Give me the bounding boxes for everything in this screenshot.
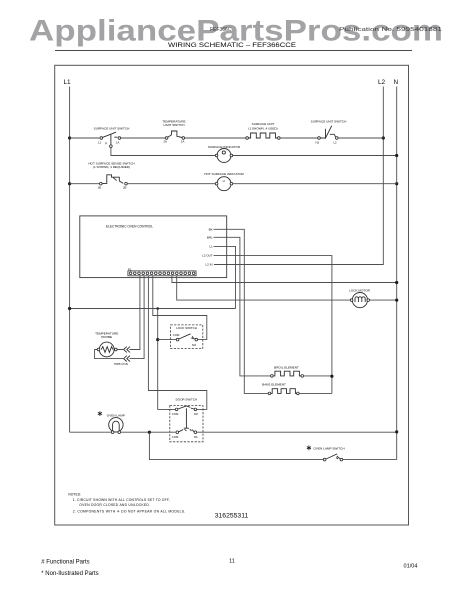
node lock/door feed tap xyxy=(156,307,159,310)
wire row2 surface indicator circuit xyxy=(111,148,397,156)
svg-text:DOOR SWITCH: DOOR SWITCH xyxy=(176,398,198,402)
lamp hot surface indicator xyxy=(204,172,244,191)
wire BRL to broil element xyxy=(214,237,271,376)
svg-text:L1: L1 xyxy=(98,141,102,145)
svg-text:LOCK SWITCH: LOCK SWITCH xyxy=(176,326,197,330)
wire oven lamp row xyxy=(70,431,397,433)
svg-text:* Non-Ilustrated Parts: * Non-Ilustrated Parts xyxy=(41,571,98,577)
svg-text:OVEN LAMP: OVEN LAMP xyxy=(107,413,125,417)
svg-text:COM: COM xyxy=(172,435,179,439)
wire BK to bake element xyxy=(214,229,269,393)
wire lock/door common feed xyxy=(158,309,177,410)
wire row3 hot surface indicator circuit xyxy=(70,183,397,185)
svg-text:L1: L1 xyxy=(209,245,213,249)
controller U1 electronic oven control xyxy=(80,216,227,278)
svg-text:P: P xyxy=(105,142,107,146)
node L2 row1 junction xyxy=(382,136,385,139)
wire lock motor to neutral xyxy=(369,299,397,301)
switch lock switch xyxy=(171,325,203,349)
resistor broil element xyxy=(271,365,332,377)
svg-text:# Functional Parts: # Functional Parts xyxy=(41,559,89,565)
node N row2 junction xyxy=(395,154,398,157)
svg-text:NC: NC xyxy=(194,435,198,439)
wire P1 to lock switch NO xyxy=(153,276,207,340)
svg-text:L2 IN: L2 IN xyxy=(206,263,213,267)
svg-text:Publication No. 5995401881: Publication No. 5995401881 xyxy=(339,27,442,33)
svg-text:1B: 1B xyxy=(98,186,102,190)
node L1 row1 junction xyxy=(68,136,71,139)
svg-text:316255311: 316255311 xyxy=(215,512,249,519)
switch door switch (double pole) xyxy=(170,398,203,442)
wire P1 to door switch NO xyxy=(148,276,206,410)
motor lock motor xyxy=(349,289,371,308)
connector probe plug PRB CON xyxy=(114,347,130,366)
svg-text:SURFACE UNIT SWITCH: SURFACE UNIT SWITCH xyxy=(94,127,130,131)
node L1 bus branch junction xyxy=(68,307,71,310)
svg-text:1. CIRCUIT SHOWN WITH ALL CON: 1. CIRCUIT SHOWN WITH ALL CONTROLS SET T… xyxy=(73,498,170,502)
switch surface unit switch (left) xyxy=(94,127,130,148)
node N junction w6 xyxy=(395,281,398,284)
node N row3 junction xyxy=(395,182,398,185)
svg-text:SURFACE UNIT SWITCH: SURFACE UNIT SWITCH xyxy=(311,119,347,123)
resistor bake element xyxy=(262,383,332,395)
svg-text:L2 OUT: L2 OUT xyxy=(202,254,213,258)
svg-text:L1: L1 xyxy=(64,79,72,86)
svg-text:LIMIT SWITCH: LIMIT SWITCH xyxy=(164,123,185,127)
node L1 row3 junction xyxy=(68,182,71,185)
svg-text:11: 11 xyxy=(229,559,235,565)
switch temperature limit switch xyxy=(162,119,185,143)
wire L1 bus vertical xyxy=(69,87,71,433)
svg-text:N: N xyxy=(394,79,399,86)
wire P1 to lock motor xyxy=(177,276,352,300)
svg-text:2. COMPONENTS WITH ✳ DO NOT: 2. COMPONENTS WITH ✳ DO NOT APPEAR ON AL… xyxy=(73,509,186,513)
svg-text:BROIL ELEMENT: BROIL ELEMENT xyxy=(274,365,299,369)
wire N rail vertical xyxy=(396,87,398,460)
header rule xyxy=(55,50,412,52)
resistor temperature probe xyxy=(95,331,118,357)
svg-text:OVEN DOOR CLOSED AND UNLOCKED.: OVEN DOOR CLOSED AND UNLOCKED. xyxy=(79,503,150,507)
lamp oven lamp xyxy=(98,411,125,433)
svg-text:FEF366C: FEF366C xyxy=(210,27,232,33)
wire L2 rail vertical xyxy=(214,87,383,265)
svg-text:OVEN LAMP SWITCH: OVEN LAMP SWITCH xyxy=(314,447,345,451)
wire P1 to probe (top lead) xyxy=(117,276,140,350)
svg-text:(1 SHOWN, 4 USED): (1 SHOWN, 4 USED) xyxy=(248,127,277,131)
wire L1 pin to L1 bus xyxy=(214,246,236,308)
node N lamp row junction xyxy=(395,430,398,433)
wire P1 to neutral xyxy=(172,276,397,283)
lamp surface indicator xyxy=(208,145,241,162)
svg-text:L2: L2 xyxy=(378,79,386,86)
wire L2 OUT to elements junction xyxy=(214,256,332,394)
connector P1 terminal strip xyxy=(128,267,196,276)
wire row1 surface-unit circuit xyxy=(70,137,384,139)
wire L1 bus branch xyxy=(70,308,236,310)
svg-text:H: H xyxy=(223,179,225,183)
svg-text:WIRING SCHEMATIC – FEF366CCE: WIRING SCHEMATIC – FEF366CCE xyxy=(168,42,297,49)
wire lock switch COM feed xyxy=(158,339,177,341)
svg-text:H2: H2 xyxy=(316,141,320,145)
svg-text:2B: 2B xyxy=(123,186,127,190)
svg-text:1A: 1A xyxy=(116,141,120,145)
wire oven lamp switch branch xyxy=(149,432,396,459)
svg-text:BK: BK xyxy=(209,227,213,231)
note block xyxy=(68,493,185,514)
svg-text:2A: 2A xyxy=(164,140,168,144)
svg-text:HOT SURFACE INDICATOR: HOT SURFACE INDICATOR xyxy=(204,172,244,176)
node lamp switch tap xyxy=(148,431,151,434)
svg-text:ELECTRONIC OVEN CONTROL: ELECTRONIC OVEN CONTROL xyxy=(106,224,153,228)
svg-text:COM: COM xyxy=(173,333,180,337)
svg-text:01/04: 01/04 xyxy=(404,563,418,569)
node lock switch COM tap xyxy=(156,338,159,341)
svg-text:BAKE ELEMENT: BAKE ELEMENT xyxy=(262,383,286,387)
svg-text:NOTES:: NOTES: xyxy=(68,493,81,497)
svg-text:1A: 1A xyxy=(181,140,185,144)
node N lock motor junction xyxy=(395,299,398,302)
resistor surface unit element xyxy=(246,122,280,139)
svg-text:PROBE: PROBE xyxy=(101,335,112,339)
switch hot surface sense switch xyxy=(88,161,134,189)
wire P1 to probe (bottom lead) xyxy=(95,276,145,359)
svg-text:BRL: BRL xyxy=(207,235,213,239)
switch oven lamp switch xyxy=(307,445,345,461)
svg-text:L2: L2 xyxy=(334,141,338,145)
node broil/bake junction xyxy=(330,375,333,378)
svg-text:COM: COM xyxy=(172,412,179,416)
svg-text:PRB CON: PRB CON xyxy=(114,362,128,366)
switch surface unit switch (right) xyxy=(311,119,347,144)
svg-text:(1 SHOWN, 4 REQUIRED): (1 SHOWN, 4 REQUIRED) xyxy=(93,165,130,169)
